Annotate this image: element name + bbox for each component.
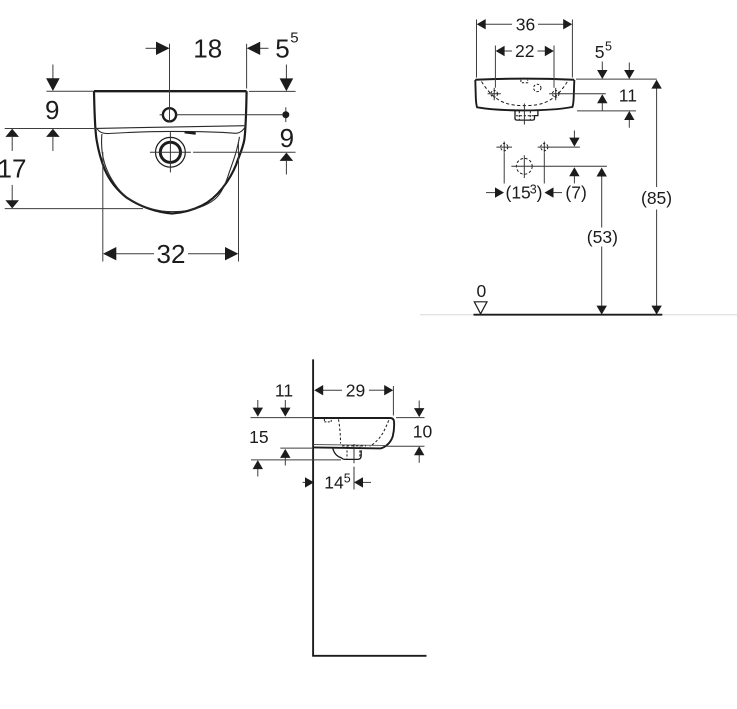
dimension (85) [656,88,658,307]
svg-text:9: 9 [280,123,294,153]
svg-text:5: 5 [275,34,289,64]
svg-text:36: 36 [516,14,535,34]
svg-text:10: 10 [413,421,433,441]
trap center line [523,104,525,125]
floor [312,655,426,657]
bowl sides and bottom [102,134,240,212]
svg-text:18: 18 [193,34,222,64]
elevation body sides and bottom [475,80,574,110]
svg-text:9: 9 [45,95,59,125]
datum triangle [474,302,487,314]
dimension 5.5 vertical (plan, right side) [249,65,296,123]
trap interior dashed [347,447,360,459]
svg-text:5: 5 [605,40,612,54]
trap elevation outline [515,111,538,121]
svg-text:29: 29 [346,380,365,400]
tap hole marker dot [282,111,289,118]
dimension 36 [477,20,573,78]
dimension 9 (plan left) [5,65,97,151]
svg-text:5: 5 [344,471,351,485]
dimension 32 (plan bottom) [103,143,239,262]
trap interior dashed [516,111,534,120]
dashed bowl front [370,420,389,446]
dimension (53) [601,176,603,307]
dashed tap hole (profile) [324,419,331,422]
dimension 22 [495,46,554,88]
svg-text:0: 0 [477,281,487,301]
svg-text:32: 32 [157,239,186,269]
dashed tap knockout top center [521,80,528,83]
svg-text:5: 5 [290,30,298,47]
supply cross right, line extends right [538,142,580,153]
profile top edge and front [314,418,394,448]
wall [312,359,314,655]
tap hole cross ticks [160,114,164,116]
elevation top edge [475,79,574,80]
svg-text:5: 5 [595,42,605,62]
tap hole cross left [488,88,501,100]
dashed overflow circle [534,84,541,91]
svg-text:(85): (85) [641,188,672,208]
basin outer outline top edge [94,90,247,92]
dimension 17 (plan left) [5,129,19,137]
trap profile [333,449,361,460]
svg-text:17: 17 [0,154,26,184]
drain center line [353,444,355,490]
svg-text:15: 15 [249,427,268,447]
dimension 18 [146,44,269,123]
drain center mark and line to (53) [511,155,607,178]
interior bottom thin line [314,445,386,446]
svg-text:22: 22 [515,41,534,61]
tap hole cross right, line extends to 5.5 dim [549,88,606,100]
dimension (7) [573,131,575,184]
dimension (15-3) [486,153,562,193]
bowl rim rounded top [97,126,246,134]
dashed bowl back [339,419,341,443]
svg-text:11: 11 [275,380,293,400]
dashed bowl rim arc [482,82,568,106]
svg-text:(53): (53) [587,227,618,247]
svg-text:(15: (15 [506,182,531,202]
svg-text:14: 14 [324,472,344,492]
dimension 29 [323,386,393,416]
svg-text:(7): (7) [565,182,586,202]
dashed bowl bottom [342,445,366,447]
drain center mark [150,151,191,153]
drain outer circle [156,137,186,167]
supply cross left [496,142,512,153]
floor line [474,314,663,316]
svg-text:11: 11 [619,85,637,105]
floor faint line [420,314,737,316]
basin outer outline sides and bottom [94,91,247,213]
tap hole circle [163,108,176,121]
bowl rim straight back line [96,126,246,129]
overflow slot dash [185,132,196,133]
svg-text:): ) [537,182,543,202]
drain symbol dashed circle [516,158,532,174]
drain inner circle [160,142,180,162]
